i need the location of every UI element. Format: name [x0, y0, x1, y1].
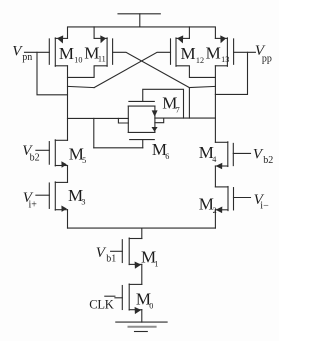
svg-text:M: M	[181, 44, 196, 63]
svg-text:b2: b2	[263, 155, 273, 166]
svg-text:b2: b2	[30, 152, 40, 163]
svg-text:pp: pp	[262, 53, 272, 64]
svg-text:pn: pn	[22, 52, 32, 63]
svg-text:7: 7	[176, 105, 180, 114]
svg-text:10: 10	[74, 56, 82, 65]
svg-text:2: 2	[213, 206, 217, 215]
svg-text:13: 13	[221, 55, 229, 64]
svg-text:11: 11	[98, 55, 106, 64]
svg-text:1: 1	[154, 259, 158, 268]
svg-text:i+: i+	[29, 199, 38, 210]
svg-text:12: 12	[196, 56, 204, 65]
svg-text:i−: i−	[260, 200, 269, 211]
svg-text:b1: b1	[106, 254, 116, 265]
svg-text:5: 5	[82, 156, 86, 165]
svg-text:CLK: CLK	[89, 298, 114, 312]
svg-text:M: M	[59, 44, 74, 63]
svg-text:M: M	[206, 43, 221, 62]
svg-text:3: 3	[81, 198, 85, 207]
svg-text:4: 4	[212, 155, 216, 164]
svg-text:0: 0	[149, 301, 153, 310]
svg-text:6: 6	[165, 152, 169, 161]
